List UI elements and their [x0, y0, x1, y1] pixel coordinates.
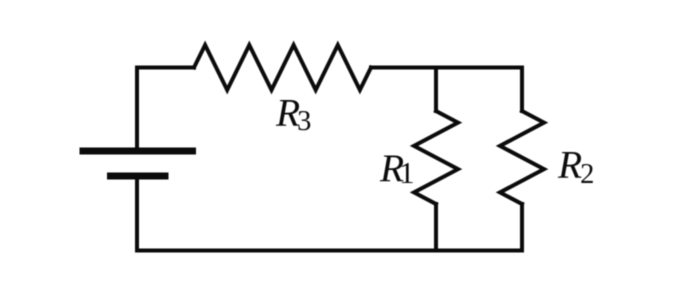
resistor R1	[414, 111, 458, 204]
battery plate: negative (short)	[107, 173, 169, 180]
battery plate: positive (long)	[80, 148, 197, 155]
wire: top-left horizontal to R3	[137, 66, 194, 70]
resistor R2	[500, 111, 544, 204]
resistor R3	[194, 45, 371, 90]
wire: battery top vertical	[135, 68, 139, 152]
wire: R1 bottom vertical	[434, 204, 438, 251]
wire: battery bottom vertical	[135, 176, 139, 251]
wire: R2 top vertical	[520, 68, 524, 112]
wire: bottom horizontal	[137, 249, 522, 253]
wire: R1 top vertical	[434, 68, 438, 112]
wire: top horizontal from R3 to top-right corner	[371, 66, 522, 70]
battery B1	[80, 151, 197, 176]
wire: R2 bottom vertical	[520, 204, 524, 251]
